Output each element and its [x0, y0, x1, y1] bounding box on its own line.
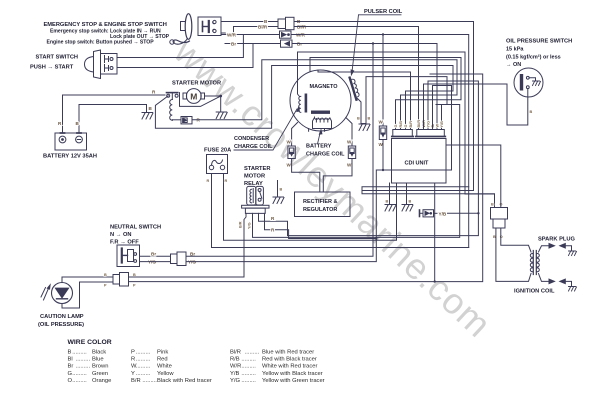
connector CN3 (Br): [281, 40, 293, 47]
svg-text:BATTERY 12V 35AH: BATTERY 12V 35AH: [43, 154, 97, 160]
connector CN2 (W/R): [280, 31, 292, 38]
svg-text:Y/G: Y/G: [427, 121, 431, 128]
svg-text:B: B: [530, 110, 533, 114]
battery charge coil label: [306, 128, 345, 157]
starter motor relay RY1: [242, 186, 269, 213]
junction relay R on YG riser: [375, 237, 377, 239]
svg-text:White with Red tracer: White with Red tracer: [262, 364, 317, 370]
svg-text:.........: .........: [241, 371, 256, 377]
svg-text:Pink: Pink: [157, 350, 168, 356]
svg-text:W: W: [287, 140, 292, 145]
junction Br neutral: [372, 42, 374, 44]
CDI ground wire 1: [389, 183, 391, 204]
connector CN11 (lamp): [113, 273, 129, 287]
ground pulser: [361, 122, 366, 124]
Y/B connector CN9: [420, 210, 438, 217]
wire ign secondary bottom: [539, 274, 549, 282]
relay case ground: [277, 181, 279, 197]
wire ign primary O: [501, 228, 531, 252]
svg-text:Y/G: Y/G: [230, 378, 240, 384]
junction Y/B on riser: [477, 212, 479, 214]
neutral switch SW4: [117, 245, 140, 267]
svg-text:Blue with Red tracer: Blue with Red tracer: [262, 350, 314, 356]
wire fuse out R left: [212, 174, 469, 248]
svg-text:R: R: [207, 179, 210, 183]
CDI ground wire 2: [406, 183, 408, 204]
svg-text:Bl/R: Bl/R: [417, 120, 421, 128]
svg-text:R: R: [131, 357, 135, 363]
ground oil switch internal: [533, 81, 541, 86]
wire B to right nest: [294, 22, 474, 191]
spark plug gap top: [549, 243, 566, 249]
wire solenoid to connector: [172, 119, 181, 121]
svg-text:RECTIFIER &: RECTIFIER &: [303, 199, 338, 205]
wire lamp P rail: [129, 74, 483, 282]
emergency stop switch SW1 lock plate: [170, 14, 192, 45]
wire magneto loop pin1L: [310, 58, 461, 130]
wire ign primary B: [496, 228, 531, 281]
condenser charge coil L1: [299, 94, 307, 113]
starter motor M1: [183, 89, 205, 104]
svg-text:W: W: [436, 124, 440, 128]
wire neutral Br to nest: [186, 44, 373, 257]
wire battery minus B to ground: [79, 105, 147, 134]
start switch label: [30, 55, 78, 71]
wire color legend: [68, 339, 325, 384]
svg-text:.........: .........: [72, 371, 87, 377]
svg-text:.........: .........: [241, 378, 256, 384]
wire W/R: [222, 34, 279, 36]
svg-text:M: M: [190, 91, 197, 101]
wire lamp B: [62, 277, 113, 283]
wire ign secondary top: [539, 246, 549, 252]
wire motor to ground junction: [205, 96, 221, 111]
wire W/R to right nest: [291, 35, 469, 248]
ground battery minus: [142, 113, 153, 120]
svg-text:Yellow with Green tracer: Yellow with Green tracer: [262, 378, 325, 384]
spark plug gap bottom: [549, 278, 566, 284]
svg-text:Br: Br: [190, 251, 195, 256]
oil pressure switch SW3: [514, 68, 543, 97]
svg-text:Yellow: Yellow: [157, 371, 174, 377]
svg-text:B/R: B/R: [239, 221, 243, 228]
svg-text:.........: .........: [136, 371, 151, 377]
wire spark bottom to ground: [566, 281, 572, 286]
svg-text:NEUTRAL SWITCH: NEUTRAL SWITCH: [110, 225, 161, 231]
wire battery coil leads to circle arc: [309, 129, 325, 132]
svg-text:Brown: Brown: [92, 364, 108, 370]
svg-text:B: B: [409, 200, 412, 204]
connector CN5 (W left): [288, 146, 295, 159]
svg-text:B/R: B/R: [409, 121, 413, 128]
svg-text:N → ON: N → ON: [110, 232, 132, 238]
starter motor relay label: [244, 166, 270, 187]
wire spark top to ground: [566, 246, 572, 251]
svg-text:W: W: [347, 163, 352, 168]
wire W right from arc: [346, 118, 352, 147]
svg-text:B: B: [357, 117, 360, 121]
wire oil switch B: [424, 84, 528, 130]
CDI unit box: [392, 139, 447, 184]
svg-text:Y/B: Y/B: [439, 211, 447, 216]
wire Y/B to nest: [448, 212, 479, 214]
caution lamp arrow: [41, 283, 51, 300]
starter motor contact: [167, 93, 179, 98]
wire Bl/R to CDI pin: [294, 27, 419, 130]
wire start switch upper to W/R rail: [117, 35, 243, 58]
svg-text:MOTOR: MOTOR: [244, 174, 265, 180]
svg-text:Bl/R: Bl/R: [258, 24, 268, 29]
relay pin1 B/R to lamp rail: [244, 213, 246, 277]
svg-text:W/R: W/R: [230, 364, 241, 370]
relay pin4 R: [265, 213, 377, 238]
connector CN10 (neutral): [171, 252, 187, 266]
connector CN1 (B, Bl/R): [278, 17, 294, 29]
ground CDI 1: [385, 205, 396, 212]
svg-text:R: R: [225, 179, 228, 183]
junction dot: [219, 95, 222, 98]
svg-text:B: B: [386, 200, 389, 204]
svg-text:.........: .........: [142, 378, 157, 384]
wire motor return diagonal: [180, 93, 221, 107]
svg-text:STARTER: STARTER: [244, 166, 270, 172]
svg-text:Black: Black: [92, 350, 106, 356]
svg-text:CAUTION LAMP: CAUTION LAMP: [40, 314, 84, 320]
connector CN4 (starter R): [181, 117, 192, 124]
svg-text:W: W: [287, 163, 292, 168]
svg-text:IGNITION COIL: IGNITION COIL: [514, 289, 555, 295]
svg-text:.........: .........: [245, 350, 260, 356]
svg-text:.........: .........: [72, 350, 87, 356]
svg-text:Br: Br: [68, 364, 74, 370]
ignition coil T1: [530, 251, 539, 275]
svg-text:EMERGENCY STOP & ENGINE STOP S: EMERGENCY STOP & ENGINE STOP SWITCH: [44, 22, 167, 28]
svg-text:MAGNETO: MAGNETO: [310, 84, 339, 90]
start switch SW2: [85, 50, 118, 79]
svg-text:Orange: Orange: [92, 378, 111, 384]
wire Bl/R from stop switch: [221, 27, 278, 34]
svg-text:White: White: [157, 364, 172, 370]
svg-text:P: P: [131, 350, 135, 356]
wire starter R to magneto loop: [192, 60, 457, 130]
svg-text:STARTER MOTOR: STARTER MOTOR: [172, 81, 221, 87]
svg-text:Br: Br: [231, 41, 236, 46]
svg-text:Blue: Blue: [92, 357, 104, 363]
condenser charge coil label: [234, 105, 300, 150]
starter solenoid coil: [170, 93, 173, 120]
svg-text:.........: .........: [76, 357, 91, 363]
CDI pin labels right: [417, 120, 444, 128]
svg-text:(OIL PRESSURE): (OIL PRESSURE): [38, 322, 84, 328]
svg-text:Red: Red: [157, 357, 168, 363]
svg-text:B: B: [491, 203, 494, 207]
wire fuse out R right: [224, 174, 397, 241]
wire W/R drop to W connector: [382, 35, 384, 127]
emergency stop switch label: [44, 22, 170, 46]
svg-text:B: B: [104, 273, 107, 277]
svg-text:.........: .........: [136, 357, 151, 363]
svg-text:W: W: [347, 140, 352, 145]
svg-text:CDI UNIT: CDI UNIT: [405, 161, 429, 167]
CDI pin labels left: [394, 121, 413, 128]
svg-text:B: B: [133, 273, 136, 277]
rectifier regulator box: [295, 192, 351, 217]
svg-text:FUSE 20A: FUSE 20A: [204, 148, 231, 154]
svg-text:Y/G: Y/G: [248, 222, 252, 229]
wire pulser lead 2: [366, 77, 447, 130]
wire start switch lower to Br rail: [117, 44, 253, 68]
battery charge coil L2: [312, 111, 332, 129]
oil pressure switch label: [506, 39, 572, 69]
svg-text:B/R: B/R: [131, 378, 141, 384]
svg-text:CONDENSER: CONDENSER: [234, 136, 269, 142]
wire starter blade to magneto loop: [155, 66, 453, 130]
magneto circle: [290, 70, 351, 131]
wire lamp P: [62, 282, 113, 308]
svg-text:BATTERY: BATTERY: [306, 144, 332, 150]
svg-text:.........: .........: [136, 350, 151, 356]
svg-text:Yellow with Black tracer: Yellow with Black tracer: [262, 371, 323, 377]
svg-text:R/B: R/B: [230, 357, 240, 363]
wire W/R tee to ignition B feed: [362, 187, 495, 208]
connector CN7 (W mid): [379, 126, 386, 140]
svg-text:CHARGE COIL: CHARGE COIL: [306, 152, 345, 158]
wire neutral Y/G: [140, 261, 171, 263]
svg-text:.........: .........: [72, 378, 87, 384]
svg-text:W: W: [379, 120, 384, 125]
CDI connector right: [416, 130, 446, 137]
svg-text:O: O: [404, 125, 408, 128]
wire condenser coil to ignition feed loop: [298, 52, 495, 208]
svg-text:PULSER COIL: PULSER COIL: [364, 9, 403, 15]
pulser coil L3: [350, 76, 361, 99]
svg-text:CHARGE COIL: CHARGE COIL: [234, 144, 273, 150]
svg-text:SPARK PLUG: SPARK PLUG: [538, 237, 575, 243]
watermark www.crowleymarine.com: [166, 30, 500, 345]
battery BT1: [55, 133, 87, 150]
svg-text:OIL PRESSURE SWITCH: OIL PRESSURE SWITCH: [506, 39, 572, 45]
svg-text:Y/B: Y/B: [230, 371, 239, 377]
wire neutral YG to nest: [186, 86, 452, 262]
svg-text:Y: Y: [131, 371, 135, 377]
relay pin2 Y/G: [253, 105, 460, 238]
svg-text:WIRE COLOR: WIRE COLOR: [68, 339, 112, 346]
svg-text:B: B: [280, 188, 283, 192]
wire B from stop switch: [221, 21, 278, 23]
neutral switch label: [110, 225, 161, 246]
svg-text:R/B: R/B: [399, 121, 403, 128]
svg-text:→ ON: → ON: [506, 62, 521, 68]
ground starter motor: [216, 112, 227, 119]
svg-text:Black with Red tracer: Black with Red tracer: [157, 378, 212, 384]
svg-text:(0.15 kgf/cm²) or less: (0.15 kgf/cm²) or less: [506, 54, 561, 61]
ground spark bottom: [569, 287, 577, 292]
wire Br to CDI pin: [292, 44, 437, 130]
wire ign O feed: [446, 145, 501, 208]
svg-text:Bl: Bl: [68, 357, 73, 363]
svg-text:Engine stop switch: Button pus: Engine stop switch: Button pushed → STOP: [47, 40, 155, 46]
connector CN6 (W right): [348, 146, 355, 159]
emergency stop switch contact box: [198, 17, 221, 36]
svg-text:START SWITCH: START SWITCH: [36, 55, 79, 61]
svg-text:Bl/R: Bl/R: [230, 350, 241, 356]
svg-text:REGULATOR: REGULATOR: [303, 207, 337, 213]
caution lamp label: [38, 314, 84, 328]
junction W drop on rail: [382, 169, 384, 171]
svg-text:.........: .........: [241, 357, 256, 363]
wire W mid down to rail: [382, 140, 384, 171]
svg-text:W/R: W/R: [227, 32, 237, 37]
svg-text:Br: Br: [151, 251, 156, 256]
svg-text:PUSH → START: PUSH → START: [30, 64, 74, 70]
wire neutral Br: [140, 255, 171, 257]
svg-text:Y/B: Y/B: [440, 121, 444, 128]
wire P branch to CDI: [434, 183, 436, 282]
svg-text:Green: Green: [92, 371, 108, 377]
pulser coil label with arrow: [351, 9, 403, 76]
ground spark top: [569, 251, 577, 256]
wire W right to rectifier: [323, 159, 352, 193]
svg-text:Red with Black tracer: Red with Black tracer: [262, 357, 317, 363]
fuse F1: [207, 155, 228, 174]
junction W/R drop: [382, 33, 384, 35]
relay pin3 R: [259, 81, 479, 236]
wire pulser lead to ground: [358, 99, 362, 123]
svg-text:B: B: [68, 350, 72, 356]
wire magneto loop pin4L: [318, 70, 411, 129]
wire battery plus R: [63, 95, 166, 133]
rectifier regulator label: [303, 199, 338, 213]
svg-text:B: B: [368, 117, 371, 121]
caution lamp LP1: [52, 283, 73, 304]
svg-text:.........: .........: [76, 364, 91, 370]
svg-text:G: G: [394, 125, 398, 128]
svg-text:15 kPa: 15 kPa: [506, 47, 524, 53]
ignition connector CN8: [491, 208, 508, 229]
svg-text:.........: .........: [241, 364, 256, 370]
wire W left to rectifier: [292, 159, 320, 193]
wire Br: [225, 43, 280, 45]
ground CDI 2: [402, 205, 413, 212]
CDI connector left: [392, 130, 414, 137]
wire W left from arc: [292, 123, 298, 147]
wire lamp B rail to relay: [129, 276, 245, 278]
svg-text:.........: .........: [136, 364, 151, 370]
